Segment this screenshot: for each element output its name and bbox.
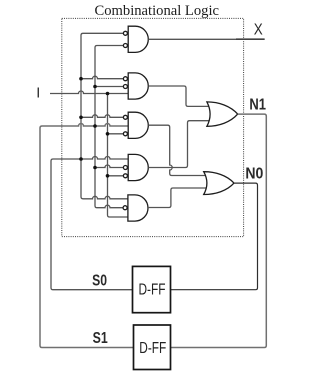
dashed box: combinational logic boundary: [62, 18, 244, 236]
bubble U4 input b: [123, 166, 127, 170]
wire: U3 output down to OR2 top input, hop over U4 wire: [148, 125, 207, 175]
wire: v1 branch to gate2 top bubble, hop over v2: [81, 76, 124, 79]
node v3-I: [106, 92, 110, 96]
wire: input I horizontal into AND gate U2, hop over v1: [50, 91, 128, 94]
svg-text:N1: N1: [249, 97, 266, 114]
wire: v3 branch to gate4 bottom bubble: [108, 175, 124, 177]
bubble U2 input a: [123, 77, 127, 81]
OR gate O2 (output N0): [204, 172, 234, 195]
bubble U3 input c: [123, 132, 127, 136]
wire: v2 branch to gate2 middle bubble: [95, 86, 124, 88]
node v1-gate3: [79, 116, 83, 120]
wire: v1 branch to gate3 top bubble, hops over v2,v3: [81, 115, 124, 118]
OR gate O1 (output N1): [207, 102, 238, 126]
svg-text:S1: S1: [93, 330, 108, 347]
D-FF U7 box (S1): [134, 325, 171, 370]
wire: v2 branch to gate4 middle bubble, hop over v3: [95, 165, 124, 168]
wire: U4 output to OR1 bottom input: [148, 121, 210, 168]
wire: S1 feedback from D-FF2 left side up and into gate3 middle input, hops over v1,v3: [40, 124, 134, 348]
wire: vertical v3 (I net) from I-line junction down to gate5 bottom input: [108, 94, 129, 218]
AND gate U3: [128, 112, 148, 138]
bubble U5 input b: [123, 206, 127, 210]
wire: OR2 output N0 down into D-FF1 right pin: [171, 183, 258, 290]
AND gate U1 (2 inverted inputs, output X): [128, 26, 148, 52]
node v2-gate2: [93, 85, 97, 89]
wire: OR1 output N1 down right side into D-FF2 right pin: [171, 114, 267, 347]
wire: vertical v1 (S0 net) from gate1 top input down to gate5 top input: [81, 33, 128, 199]
node v3-gate4: [106, 174, 110, 178]
wire: U1 output to X: [148, 38, 264, 40]
node v1-gate2: [79, 77, 83, 81]
node v2-S1: [93, 124, 97, 128]
svg-text:D-FF: D-FF: [139, 281, 166, 298]
svg-text:D-FF: D-FF: [139, 340, 166, 357]
bubble U1 input b: [123, 44, 127, 48]
AND gate U5: [128, 195, 148, 221]
wire: X terminal segment: [236, 38, 265, 40]
node v2-gate4: [93, 166, 97, 170]
svg-text:I: I: [36, 86, 40, 102]
svg-text:N0: N0: [245, 166, 263, 183]
svg-text:Combinational Logic: Combinational Logic: [95, 3, 220, 19]
bubble U1 input a: [123, 31, 127, 35]
wire: U5 output up to OR2 bottom input: [148, 188, 207, 208]
bubble U3 input a: [123, 115, 127, 119]
node v1-S0: [79, 157, 83, 161]
svg-text:S0: S0: [92, 272, 107, 289]
D-FF U6 box (S0): [133, 266, 171, 312]
AND gate U2 (3 inputs: 2 bubbles + I): [128, 73, 148, 99]
bubble U2 input b: [123, 85, 127, 89]
wire: vertical v2 (S1 net) from gate1 bottom input down to gate5 middle bubble: [95, 46, 124, 208]
wire: U2 output to OR1 top input: [148, 86, 210, 106]
svg-text:X: X: [254, 22, 264, 39]
wire: S0 feedback from D-FF1 left side up and into gate4 top input, hops over v2,v3: [51, 157, 133, 290]
bubble U4 input c: [123, 174, 127, 178]
node v3-gate3: [106, 132, 110, 136]
wire: v3 branch to gate3 bottom bubble: [108, 133, 124, 135]
AND gate U4: [128, 154, 148, 180]
